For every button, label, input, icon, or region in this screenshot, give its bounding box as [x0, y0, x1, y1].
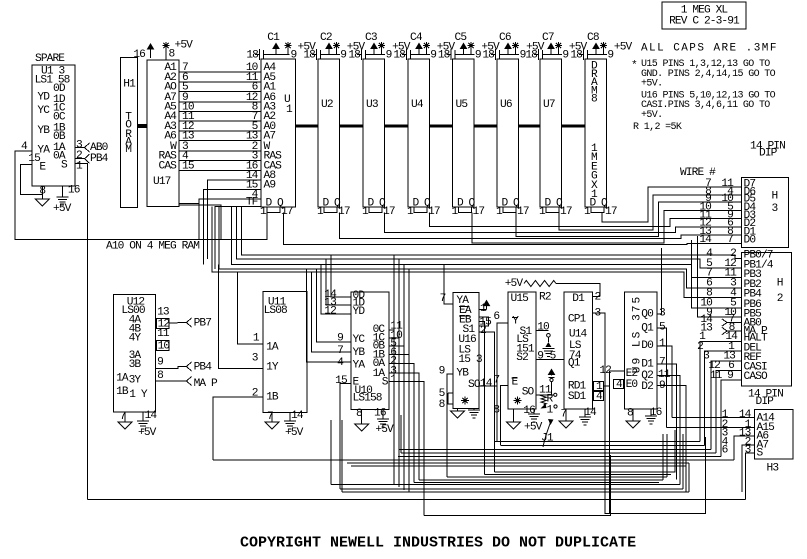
svg-text:D1: D1	[572, 293, 585, 305]
svg-text:SO: SO	[468, 379, 481, 391]
svg-text:U7: U7	[543, 99, 555, 111]
svg-text:U6: U6	[500, 99, 512, 111]
svg-text:4Y: 4Y	[129, 332, 142, 344]
wire U4 Q to H3 D3	[430, 213, 742, 227]
svg-text:18: 18	[348, 50, 360, 62]
+5V U12 pin 14	[142, 412, 144, 421]
svg-text:C6: C6	[499, 32, 511, 44]
wire nested U 5	[414, 481, 659, 483]
wire U17 AO to U1	[179, 91, 261, 93]
wire U17 A5 to U1	[179, 110, 261, 112]
svg-text:17: 17	[560, 206, 572, 218]
wire U10 YC pin9	[317, 269, 352, 342]
svg-text:J1: J1	[541, 433, 554, 445]
svg-text:H3: H3	[767, 463, 779, 475]
wire U2 Q to H3 D1	[340, 213, 742, 239]
net MAP at U12	[187, 377, 192, 386]
wire U17 A2 to U1	[179, 81, 261, 83]
wire H2 CASI down	[716, 370, 741, 453]
wire U5 Q to H3 D4	[472, 211, 742, 244]
wire R2 to U14 D1	[556, 284, 600, 297]
svg-text:E0: E0	[626, 379, 639, 391]
latch U9 LS375	[624, 292, 657, 409]
wire A15 row	[667, 426, 755, 428]
svg-text:9: 9	[439, 366, 445, 378]
wire U11 1Y output	[218, 265, 263, 369]
wire left verticals up from rails	[330, 420, 332, 485]
svg-text:COPYRIGHT NEWELL INDUSTRIES D: COPYRIGHT NEWELL INDUSTRIES DO NOT DUPLI…	[240, 535, 636, 552]
svg-text:+5V: +5V	[505, 278, 524, 290]
wire U16 EB pin15	[479, 322, 485, 475]
wire U3 Q to H3 D2	[385, 213, 742, 233]
svg-text:9: 9	[157, 357, 163, 369]
svg-text:Q0: Q0	[641, 308, 654, 320]
wire chain U7 to U8	[561, 125, 585, 128]
wire U15 S1 pin10 pulldown	[536, 330, 548, 332]
wire right verticals up from rails	[682, 434, 684, 489]
svg-text:+5V: +5V	[524, 421, 543, 433]
connector H3 top	[742, 178, 789, 248]
svg-text:+5V.: +5V.	[641, 110, 662, 121]
wire U15 E pin7	[501, 385, 509, 445]
wire U14 RD1 SD1 stub	[604, 385, 610, 387]
svg-text:U14: U14	[569, 329, 588, 341]
wire U17 A6 to U1	[179, 139, 261, 141]
wire chain U4 to U5	[429, 125, 452, 128]
wire bottom rail 9	[331, 484, 680, 486]
svg-text:C4: C4	[410, 32, 423, 44]
wire U10 0C pin11	[389, 329, 394, 331]
svg-text:6: 6	[722, 445, 728, 457]
svg-text:9: 9	[340, 50, 346, 62]
wire U15 S2 to U14 Q1	[536, 359, 564, 361]
wire U1 A8 row from bundle	[208, 180, 262, 259]
ground U10 pin 8	[361, 410, 363, 425]
wire U13 pin1 S down left	[75, 164, 88, 500]
wire U12 to PB7	[169, 322, 187, 325]
svg-text:5: 5	[550, 351, 556, 363]
DRAM U2	[318, 59, 339, 207]
svg-text:U4: U4	[411, 99, 424, 111]
svg-text:8: 8	[356, 408, 362, 420]
wire U17 A1 to U1	[179, 71, 261, 73]
+5V U15 pin 16	[533, 409, 535, 414]
wire U17 CAS to U1	[179, 169, 261, 171]
svg-text:+5V.: +5V.	[641, 79, 662, 90]
svg-text:YA: YA	[353, 359, 366, 371]
ground bars U9 pin 16	[650, 409, 652, 416]
DRAM U5	[453, 59, 474, 207]
wire U17 bottom to rail	[179, 203, 199, 205]
svg-text:14: 14	[480, 378, 493, 390]
svg-text:3Y: 3Y	[129, 375, 142, 387]
svg-text:+5V: +5V	[614, 42, 633, 54]
svg-text:DIP: DIP	[759, 148, 778, 160]
wire U12 pin9 to PB4	[155, 367, 186, 369]
svg-text:9: 9	[337, 333, 343, 345]
wire U9 Q1 to A15	[657, 328, 667, 427]
mux U10 LS158	[351, 292, 389, 410]
svg-text:8: 8	[439, 399, 445, 411]
ground U16	[457, 408, 459, 411]
connector H3 bottom	[755, 410, 794, 460]
svg-text:15: 15	[28, 153, 40, 165]
svg-text:M: M	[125, 144, 131, 156]
U12 pin 12 boxed	[156, 318, 169, 328]
wire U7 Q to H3 D6	[559, 195, 742, 230]
quad NAND U12 LS00	[114, 294, 156, 412]
svg-text:1A: 1A	[266, 341, 279, 353]
svg-text:10: 10	[537, 322, 550, 334]
wire U11 1B input	[213, 397, 263, 460]
wire H2 CASO down	[721, 380, 741, 456]
U14 pin 1 boxed	[594, 382, 604, 391]
wire bottom rail 11	[340, 488, 683, 490]
wire bus PB5	[698, 236, 742, 317]
wire U14 CP1	[593, 313, 706, 514]
wire U9 Q0 to bus	[657, 248, 661, 314]
DRAM U7	[540, 59, 561, 207]
wire bottom rail 12	[342, 491, 689, 493]
svg-text:7: 7	[659, 357, 665, 369]
+5V U13 pin 16	[62, 186, 64, 197]
svg-text:Q1: Q1	[641, 322, 654, 334]
svg-text:C2: C2	[320, 32, 332, 44]
wire U3 D-Q loop	[369, 207, 382, 213]
AND gate U11 LS08	[263, 291, 307, 412]
wire cap C2 to +5V	[328, 47, 330, 55]
svg-text:C5: C5	[455, 32, 467, 44]
U12 pin 10 boxed	[156, 340, 169, 350]
svg-text:12: 12	[324, 306, 336, 318]
wire U16 YA input	[444, 265, 453, 304]
svg-text:PB7: PB7	[194, 317, 212, 329]
wire bus PB0/7	[242, 207, 742, 259]
mux U15 LS151	[508, 292, 536, 409]
svg-text:9: 9	[430, 50, 436, 62]
wire U16 S1 pin2	[479, 332, 495, 472]
svg-text:17: 17	[517, 206, 529, 218]
svg-text:R2: R2	[539, 292, 551, 304]
wire verticals right of U10 down	[393, 255, 395, 485]
svg-text:YB: YB	[456, 368, 469, 380]
wire U10 pin14 up	[331, 255, 351, 297]
wire U13 pin4 YA to A10 rail	[15, 151, 267, 240]
wire U4 D-Q loop	[414, 207, 427, 213]
svg-text:1B: 1B	[116, 386, 129, 398]
ground U11 pin 7	[271, 412, 273, 422]
svg-text:14: 14	[291, 410, 304, 422]
wire U10 0B pin5	[389, 345, 404, 347]
svg-text:9: 9	[607, 50, 613, 62]
wire U17 pin1 down to rail	[179, 205, 221, 239]
DRAM U4	[408, 59, 429, 207]
svg-text:+5V: +5V	[175, 40, 194, 52]
svg-text:3B: 3B	[129, 359, 142, 371]
svg-text:C8: C8	[587, 32, 599, 44]
svg-text:+5V: +5V	[285, 427, 304, 439]
wire chain U6 to U7	[519, 125, 540, 128]
wire cap C6 to +5V	[507, 47, 509, 55]
svg-text:LS08: LS08	[264, 305, 287, 317]
svg-text:16: 16	[523, 405, 535, 417]
wire bottom long rail	[88, 499, 746, 501]
wire nested U 1	[494, 430, 675, 472]
svg-text:9: 9	[537, 351, 543, 363]
svg-text:D2: D2	[641, 381, 653, 393]
ground bars U16	[473, 408, 475, 410]
svg-text:16: 16	[374, 408, 386, 420]
wire U16 SO pin14	[479, 386, 497, 442]
wire U10 E pin15	[340, 384, 351, 489]
svg-text:*: *	[631, 60, 637, 72]
svg-text:17: 17	[473, 206, 485, 218]
wire U13 pin15 E loop	[21, 165, 43, 195]
wire bottom rail 8	[351, 465, 686, 467]
wire U1 D-Q loop	[267, 207, 280, 213]
wire U5 D-Q loop	[459, 207, 472, 213]
title box	[662, 2, 746, 29]
svg-text:A9: A9	[264, 180, 276, 192]
svg-text:+5V: +5V	[375, 424, 394, 436]
svg-text:16: 16	[133, 49, 145, 61]
svg-text:PB4: PB4	[90, 153, 109, 165]
wire U1 pin4 row	[199, 199, 261, 239]
wire U9 D2 down	[657, 386, 686, 493]
svg-text:+5V: +5V	[138, 427, 157, 439]
wire U10 pin12 up	[321, 265, 351, 314]
svg-text:C1: C1	[267, 32, 280, 44]
svg-text:YD: YD	[37, 92, 50, 104]
wire chain U2 to U3	[339, 125, 363, 128]
svg-text:10: 10	[158, 340, 171, 352]
svg-text:17: 17	[605, 206, 617, 218]
svg-text:H: H	[777, 277, 783, 289]
svg-text:SO: SO	[522, 387, 535, 399]
wire U17 A4 to U1	[179, 120, 261, 122]
svg-text:18: 18	[482, 50, 494, 62]
wire bottom loop A	[424, 455, 610, 516]
svg-text:15 3: 15 3	[458, 354, 481, 366]
connector H1	[121, 58, 138, 208]
wire U10 YB pin7	[312, 272, 352, 352]
wire chain U1 to U2	[296, 125, 319, 128]
wire U17 A7 to U1	[179, 101, 261, 103]
wire bottom rail 4	[401, 452, 716, 454]
svg-text:Q1: Q1	[568, 358, 581, 370]
svg-text:2: 2	[480, 325, 486, 337]
svg-text:YB: YB	[37, 125, 50, 137]
net PB7 at U12	[187, 318, 192, 327]
wire chain U5 to U6	[474, 125, 497, 128]
mux bank U17	[147, 60, 179, 207]
wire U9 D0 to A14	[657, 346, 672, 418]
wire U12 pin8 to MAP	[155, 380, 186, 382]
ground U13 pin 8	[41, 186, 43, 199]
svg-text:1B: 1B	[266, 391, 279, 403]
svg-text:CASO: CASO	[744, 371, 768, 383]
wire H3 A6 down	[734, 436, 755, 460]
svg-text:MA P: MA P	[744, 326, 768, 338]
svg-text:18: 18	[393, 50, 405, 62]
wire U9 Q2 down	[657, 376, 680, 485]
wire cap C3 to +5V	[373, 47, 375, 55]
wire U17 A3 to U1	[179, 130, 261, 132]
svg-text:REV C 2-3-91: REV C 2-3-91	[669, 15, 740, 27]
U16 pin 15 boxed	[479, 317, 489, 326]
wire U1 Q to H3 D0	[284, 213, 742, 245]
svg-text:CP1: CP1	[568, 313, 587, 325]
svg-text:2: 2	[777, 293, 783, 305]
wire U8 D-Q loop	[591, 207, 604, 213]
svg-text:S2: S2	[516, 352, 528, 364]
mux U16 LS153	[453, 293, 479, 409]
wire U1 A9 row from bundle	[204, 190, 262, 265]
svg-text:D0: D0	[641, 340, 654, 352]
svg-text:H1: H1	[123, 79, 136, 91]
wire bottom rail 7	[347, 462, 689, 464]
wire U15 SO network J1	[536, 394, 553, 396]
svg-text:17: 17	[281, 206, 293, 218]
svg-text:3: 3	[252, 352, 258, 364]
wire bus PB3	[231, 207, 741, 278]
svg-text:YC: YC	[37, 105, 50, 117]
svg-text:3: 3	[595, 308, 601, 320]
wire U15 Y pin6 down	[497, 323, 508, 442]
wire U2 D-Q loop	[324, 207, 337, 213]
svg-text:9: 9	[475, 50, 481, 62]
wire H2 REF down	[711, 361, 742, 450]
svg-text:ALL CAPS ARE .3MF: ALL CAPS ARE .3MF	[641, 43, 778, 55]
wire U10 pin13 up	[326, 259, 351, 305]
wire nested U 3	[447, 476, 667, 478]
svg-text:9: 9	[291, 50, 297, 62]
wire MAP stub	[727, 330, 742, 332]
svg-text:YD: YD	[353, 306, 366, 318]
wire U6 D-Q loop	[503, 207, 516, 213]
wire U13 pin2 to PB4	[75, 158, 85, 160]
wire U16 YB	[447, 374, 453, 477]
svg-text:D0: D0	[744, 235, 757, 247]
wire cap C7 to +5V	[550, 47, 552, 55]
svg-text:C7: C7	[542, 32, 554, 44]
svg-text:SPARE: SPARE	[35, 53, 65, 65]
wire U11 1A input	[237, 272, 263, 344]
svg-text:SD1: SD1	[568, 391, 587, 403]
svg-text:18: 18	[438, 50, 450, 62]
wire bus PB2	[219, 207, 742, 288]
flip-flop U14 LS74	[564, 292, 593, 409]
wire U17 RAS to U1	[179, 160, 261, 162]
wire U16 pin5 pin8	[448, 392, 453, 394]
DRAM U8	[585, 59, 606, 207]
wire U9 E2 stub	[609, 371, 624, 514]
ground U14 pin 7	[565, 409, 567, 421]
connector H2	[742, 253, 792, 387]
wire U9 D1 down	[657, 364, 676, 480]
svg-text:11: 11	[157, 328, 170, 340]
wire U8 Q to H3 D7	[602, 187, 742, 222]
wire U14 D1 pin2 stub	[593, 296, 600, 298]
+5V U11 pin 14	[289, 412, 291, 421]
wire U17 W to U1	[179, 150, 261, 152]
svg-text:U2: U2	[321, 99, 333, 111]
svg-text:8: 8	[627, 408, 633, 420]
+5V U10 pin 16	[382, 410, 384, 420]
wire cap C5 to +5V	[463, 47, 465, 55]
svg-text:6: 6	[493, 311, 499, 323]
svg-text:3: 3	[772, 203, 778, 215]
svg-text:R 1,2 =5K: R 1,2 =5K	[633, 122, 682, 133]
wire bottom rail 6	[213, 459, 734, 461]
wire H2 HALT down	[700, 341, 741, 441]
wire bottom rail 3	[399, 449, 711, 451]
wire U1 TF row	[215, 207, 261, 270]
net PB4	[85, 154, 90, 163]
net AB0	[85, 143, 90, 152]
svg-text:2: 2	[252, 387, 258, 399]
wire bus PB6	[692, 240, 742, 308]
svg-text:8: 8	[729, 322, 735, 334]
ground U15 pin 8	[513, 409, 515, 422]
wire bus PB4	[212, 207, 742, 298]
svg-text:YB: YB	[353, 347, 366, 359]
svg-text:U3: U3	[366, 99, 378, 111]
svg-text:13: 13	[700, 323, 712, 335]
+5V arrow above H1	[150, 47, 152, 58]
wire U13 pin3 to AB0	[75, 147, 85, 149]
svg-text:+5V: +5V	[53, 203, 72, 215]
svg-text:MA P: MA P	[194, 378, 218, 390]
wire H3 S down	[746, 453, 755, 500]
svg-text:U5: U5	[456, 99, 468, 111]
svg-text:15: 15	[335, 375, 347, 387]
svg-text:LS158: LS158	[353, 392, 382, 404]
svg-text:8: 8	[591, 94, 597, 106]
wire U10 YA pin4	[307, 269, 352, 362]
svg-text:PB4: PB4	[194, 362, 213, 374]
wire U7 D-Q loop	[546, 207, 559, 213]
ground U9 pin 8	[632, 409, 634, 421]
svg-text:13: 13	[157, 307, 169, 319]
wire nested U 2	[485, 474, 672, 476]
net PB4 at U12	[187, 362, 192, 371]
svg-text:D1: D1	[641, 359, 654, 371]
ground U12 pin 7	[124, 412, 126, 422]
wire U10 1A pin3	[389, 373, 419, 480]
svg-text:18: 18	[303, 50, 315, 62]
svg-text:H: H	[772, 191, 778, 203]
U9 pin 4 boxed	[614, 380, 624, 389]
wire A14 row	[672, 417, 755, 419]
svg-text:YC: YC	[353, 334, 366, 346]
svg-text:16: 16	[650, 407, 662, 419]
H1 thick tick	[137, 125, 147, 128]
svg-text:U15: U15	[511, 293, 529, 305]
wire cap C4 to +5V	[418, 47, 420, 55]
svg-text:A10 ON 4 MEG RAM: A10 ON 4 MEG RAM	[106, 241, 199, 253]
svg-text:1 Y: 1 Y	[129, 389, 148, 401]
svg-text:U17: U17	[153, 176, 171, 188]
wire cap C1 to +5V	[275, 47, 277, 55]
wire H2 DEL down	[705, 351, 742, 445]
wire bottom rail 2	[501, 445, 705, 447]
ground bars U14 pin 14	[584, 409, 586, 417]
wire bottom rail 1	[495, 441, 700, 443]
wire cap C8 to +5V	[595, 47, 597, 55]
svg-text:C3: C3	[365, 32, 377, 44]
wire AB0 stub	[727, 322, 742, 324]
